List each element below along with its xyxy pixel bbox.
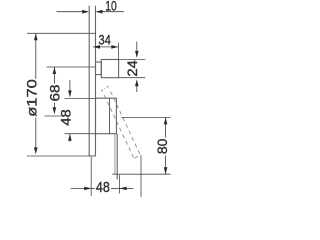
lever bar right edge [116,134,118,180]
arrow 48B right (points left) [120,187,127,191]
dashed lever tip [135,155,141,158]
svg-text:34: 34 [98,32,111,48]
lever body detail line [109,98,111,134]
dim 80 top extension [121,116,170,118]
dim 80 bottom extension [112,173,170,175]
svg-text:48: 48 [96,180,110,196]
arrow 80 up [164,117,168,124]
dim 48 bottom left tail [71,187,92,189]
arrow 48B left (points right) [84,187,91,191]
lever body [96,98,117,134]
dim 68 bottom extension (short) [45,115,62,117]
dim 48 left top extension [65,97,96,99]
arrow 48L down (outside, points down) [68,90,72,97]
arrow 24 up (outside) [135,79,139,86]
dia170 dim line upper [35,33,37,79]
dim 34 right extension (down to box corner) [118,43,120,60]
dim 48 bottom right extension [119,175,121,194]
dim 68 line lower [53,103,55,108]
dim 68 line upper [53,67,55,84]
dim 48 left bottom extension [65,133,96,135]
svg-text:ø170: ø170 [23,79,39,117]
dia170 bottom extension [27,155,96,157]
arrow 10 right (points left) [96,10,103,14]
arrow dia170 down [34,147,38,154]
dim 48 bottom mid segments [91,187,95,189]
svg-text:10: 10 [105,0,117,14]
arrow 34 right (points right) [111,45,118,49]
dim 24 top extension [119,58,146,60]
extension line from dashed lever tip [140,155,142,197]
arrow dia170 up [34,33,38,40]
arrow 68 up [53,67,57,74]
dim 48 left top tail [69,80,71,91]
dashed lever edge 1 [104,95,134,158]
dashed pivot arc 2 [107,86,111,88]
svg-text:80: 80 [154,138,170,154]
dim 24 top tail [136,42,138,53]
dim 48 bottom left extension [90,157,92,196]
dim 80 line lower [165,156,167,175]
svg-text:48: 48 [58,109,74,126]
wall plate [89,6,95,156]
svg-text:24: 24 [124,60,140,77]
dia170 dim line lower [35,118,37,148]
arrow 80 down [164,167,168,174]
dashed pivot arc 1 [102,89,105,92]
dim 68 top extension [47,66,96,68]
valve box [101,60,118,78]
dim 48 bottom right tail [120,187,134,189]
arrowheads [34,10,167,190]
dim 24 bottom extension [119,77,146,79]
dim 10 right tail [97,11,124,13]
dim 10 left tail [57,11,88,13]
arrow 68 down [53,107,57,114]
arrow 24 down (outside) [135,51,139,58]
svg-text:68: 68 [47,84,63,101]
dim 34 line [93,46,118,48]
dashed lever edge 2 [111,92,141,156]
dim 80 line upper [165,117,167,137]
dia170 top extension [27,32,96,34]
dim 48 left bottom tail [69,134,71,142]
neck between plate and valve box [96,62,102,75]
arrow 34 left (points left) [93,45,100,49]
dim 24 bottom tail [136,85,138,92]
lever bar left edge [114,134,116,174]
arrow 48L up (outside, points up) [68,134,72,141]
arrow 10 left (points right) [82,10,89,14]
